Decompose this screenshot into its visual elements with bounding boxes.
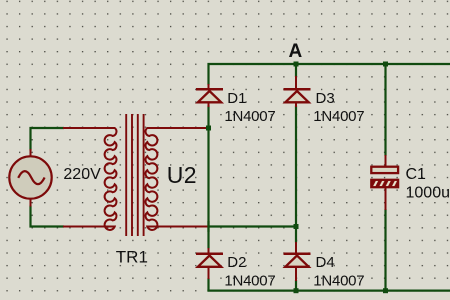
junction: secondary bottom / D3-D4 midpoint (294, 224, 299, 229)
capacitor C1 top plate (371, 167, 398, 173)
wire: D3 bottom to junction at secondary-bottom net (295, 106, 297, 229)
diode D3 pin stubs (295, 76, 297, 107)
wire: AC source bottom wire down and right to transformer primary (31, 206, 65, 227)
wire: D4 bottom to bottom rail (295, 280, 297, 291)
wire: secondary bottom to D3/D4 midpoint junction (208, 225, 297, 227)
transformer secondary winding (146, 128, 208, 230)
svg-text:C1: C1 (406, 166, 427, 183)
wire: capacitor C1 bottom to bottom rail (384, 209, 386, 291)
svg-text:1000u: 1000u (406, 185, 450, 202)
capacitor C1 bottom pin (385, 187, 387, 210)
wire: D4 top stub (295, 227, 297, 243)
svg-text:1N4007: 1N4007 (224, 272, 275, 289)
junction: top rail to C1 (383, 62, 388, 67)
transformer TR1 primary pin (top) (63, 127, 113, 129)
wire: top rail from D1 column to right edge (209, 64, 450, 85)
svg-text:1N4007: 1N4007 (313, 108, 364, 125)
diode D1 (196, 89, 223, 102)
svg-text:A: A (289, 41, 303, 62)
junction: C1 to bottom rail (383, 288, 388, 293)
wire: D1 bottom to D2 top (left bridge column) (207, 106, 209, 249)
svg-text:D3: D3 (316, 90, 335, 107)
diode D1 pin stubs (208, 84, 210, 107)
svg-text:1N4007: 1N4007 (224, 108, 275, 125)
AC source sine wave (18, 171, 44, 184)
diode D2 (196, 254, 223, 267)
AC source top pin (30, 149, 32, 157)
junction: node A on top rail (294, 62, 299, 67)
svg-text:U2: U2 (167, 162, 197, 188)
transformer TR1 primary winding (64, 128, 116, 230)
svg-text:1N4007: 1N4007 (313, 272, 364, 289)
svg-text:D1: D1 (227, 90, 246, 107)
diode D2 pin stubs (208, 248, 210, 279)
junction: secondary top / D1-D2 midpoint (206, 126, 211, 131)
wire: D2 bottom to bottom rail corner (207, 278, 209, 291)
transformer TR1 primary pin (bottom) (63, 226, 113, 228)
svg-text:D4: D4 (316, 254, 335, 271)
transformer core (4 lines) (126, 114, 143, 236)
capacitor C1 bottom plate (hatched) (371, 180, 398, 187)
AC source V1 circle (9, 156, 51, 198)
svg-text:220V: 220V (63, 166, 101, 183)
svg-text:TR1: TR1 (116, 248, 148, 267)
junction: D4 to bottom rail (294, 288, 299, 293)
wire crossing overlay at left column x secondary bottom (207, 221, 209, 232)
diode D4 pin stubs (295, 242, 297, 281)
wire: top rail down to capacitor C1 (384, 64, 386, 156)
svg-text:D2: D2 (227, 254, 246, 271)
wire: bottom rail to right edge (207, 290, 450, 292)
diode D4 (284, 254, 311, 267)
diode D3 (284, 89, 311, 102)
wire: D3 top stub from node A (295, 64, 297, 77)
AC source bottom pin (30, 198, 32, 207)
wire: AC source top wire up and right to transformer primary (31, 128, 65, 151)
capacitor C1 top pin (385, 155, 387, 166)
